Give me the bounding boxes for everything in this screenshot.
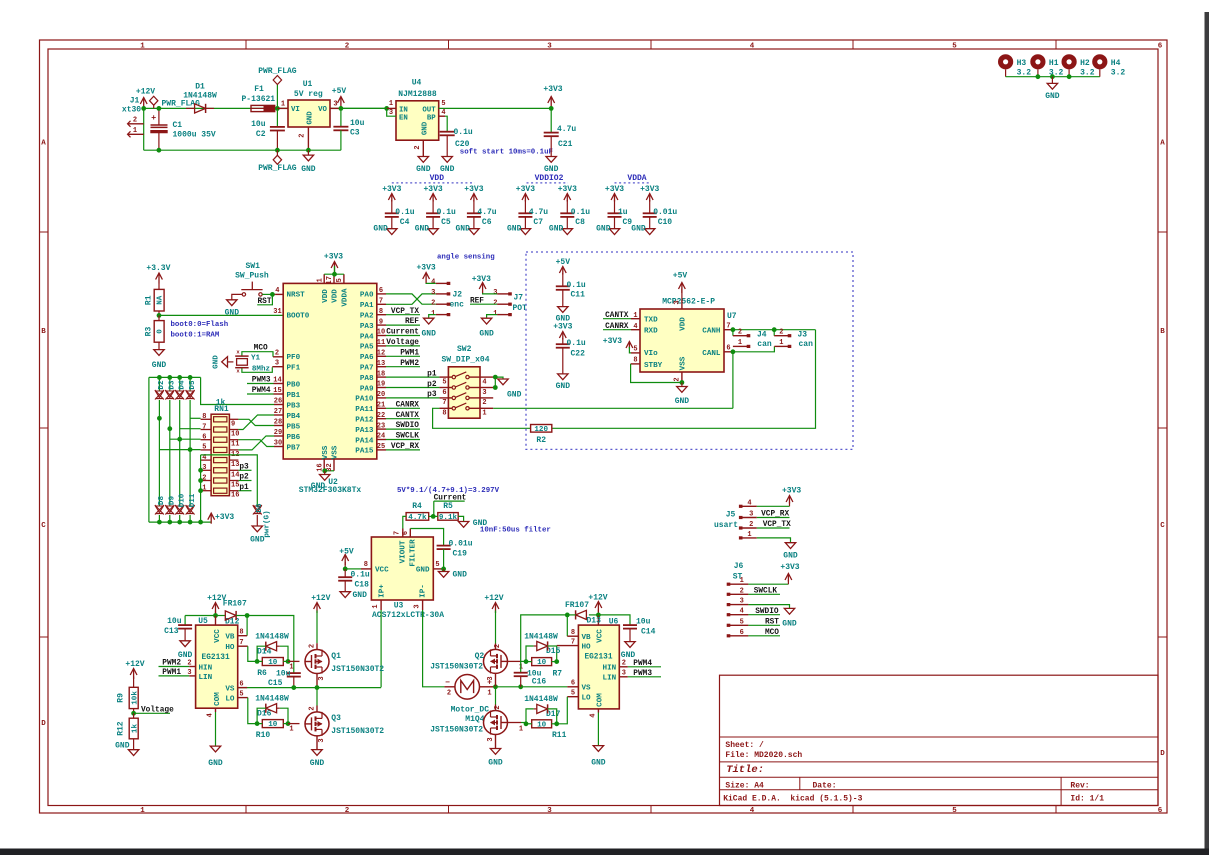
- svg-text:VCC: VCC: [597, 629, 605, 643]
- svg-text:1u: 1u: [618, 208, 628, 217]
- label p2 stub RN1 pin15: [238, 480, 251, 482]
- ground below U1: [307, 150, 309, 155]
- svg-text:1N4148W: 1N4148W: [524, 695, 558, 704]
- svg-text:GND: GND: [455, 224, 470, 233]
- PB5 pin: [274, 425, 283, 427]
- svg-text:VIOUT: VIOUT: [399, 540, 407, 563]
- svg-text:6: 6: [442, 389, 446, 397]
- svg-text:2: 2: [187, 660, 191, 668]
- svg-text:3: 3: [333, 100, 337, 108]
- svg-text:enc: enc: [450, 301, 465, 310]
- svg-text:17: 17: [326, 276, 334, 284]
- MCU pin 18: [377, 376, 386, 378]
- ground at J5: [785, 543, 795, 549]
- svg-text:D: D: [41, 720, 46, 728]
- svg-text:U4: U4: [412, 79, 422, 88]
- wire J6 pin3 to gnd: [748, 605, 789, 609]
- svg-text:1: 1: [493, 310, 497, 318]
- svg-text:PA14: PA14: [355, 437, 374, 445]
- svg-text:2: 2: [494, 644, 502, 648]
- svg-text:2: 2: [309, 644, 317, 648]
- svg-text:PB6: PB6: [287, 434, 301, 442]
- label VCP_TX on PA2: [386, 314, 420, 316]
- label SWCLK on PA14: [386, 439, 420, 441]
- svg-text:xt30: xt30: [122, 106, 141, 115]
- svg-text:PWM4: PWM4: [633, 660, 652, 668]
- wire SW1 left to gnd: [232, 294, 242, 299]
- svg-text:32: 32: [326, 463, 334, 471]
- RN1 resistor 7: [214, 478, 227, 483]
- svg-text:usart: usart: [714, 521, 738, 530]
- MCU pin 23: [377, 428, 386, 430]
- svg-text:VDD: VDD: [430, 174, 445, 183]
- svg-text:4.7k: 4.7k: [408, 514, 427, 522]
- SW2 switch 2: [439, 387, 452, 389]
- wire R10 to Q3 gate: [257, 723, 262, 725]
- svg-text:LIN: LIN: [603, 675, 617, 683]
- junction R1/R3: [157, 313, 162, 318]
- svg-text:1N4148W: 1N4148W: [255, 694, 289, 703]
- svg-text:B: B: [41, 328, 46, 336]
- capacitor C15 10u: [287, 672, 301, 674]
- svg-text:VCC: VCC: [214, 629, 222, 643]
- svg-text:GND: GND: [782, 620, 797, 629]
- svg-text:0.01u: 0.01u: [449, 539, 473, 548]
- svg-text:GND: GND: [479, 329, 494, 338]
- mounting hole H1: [1030, 54, 1045, 69]
- svg-text:PWM3: PWM3: [252, 377, 271, 385]
- svg-text:PB0: PB0: [287, 381, 301, 389]
- svg-text:10k: 10k: [131, 691, 139, 705]
- svg-text:PB1: PB1: [287, 392, 301, 400]
- svg-text:8: 8: [442, 410, 446, 418]
- svg-text:VDD: VDD: [322, 289, 330, 303]
- svg-text:2: 2: [202, 474, 206, 482]
- svg-text:PWM2: PWM2: [400, 360, 419, 368]
- sensor U3 ACS712xLCTR-30A: [371, 537, 433, 600]
- svg-text:6: 6: [202, 434, 206, 442]
- power +3V3 at RN1 bottom: [208, 513, 215, 520]
- wire PA8 to SW2 p1: [386, 376, 439, 378]
- SW2 switch 1: [439, 376, 452, 378]
- label CANRX on PA11: [386, 407, 420, 409]
- svg-text:HIN: HIN: [199, 664, 213, 672]
- resistor R10 10: [262, 720, 283, 728]
- svg-text:13: 13: [231, 461, 239, 469]
- ground below U6 COM: [593, 746, 603, 752]
- frame column ticks bottom: [245, 806, 247, 814]
- junction VCC: [343, 567, 348, 572]
- svg-text:PA6: PA6: [360, 354, 374, 362]
- svg-text:1: 1: [747, 531, 751, 539]
- svg-text:4: 4: [207, 713, 215, 717]
- svg-text:LO: LO: [225, 696, 235, 704]
- title block dividers: [720, 736, 1159, 738]
- U4 pin1 IN: [387, 107, 396, 109]
- svg-text:COM: COM: [597, 693, 605, 707]
- svg-text:3: 3: [431, 289, 435, 297]
- wire VB drop U6: [566, 615, 568, 636]
- label p3 stub RN1 pin14: [238, 469, 251, 471]
- U6 VS pin 6: [567, 686, 578, 688]
- svg-text:14: 14: [273, 377, 281, 385]
- wire bootstrap rail to C15: [247, 616, 294, 674]
- svg-text:PA10: PA10: [355, 396, 374, 404]
- ground below U4: [418, 157, 428, 163]
- wire diode bottom rail: [149, 521, 211, 523]
- ground below C14: [625, 642, 635, 648]
- svg-text:3: 3: [202, 464, 206, 472]
- RN1 resistor 4: [214, 447, 227, 452]
- power +12V at U6: [595, 602, 602, 609]
- wire taps to RN1: [190, 417, 201, 419]
- svg-text:GND: GND: [310, 759, 325, 768]
- wire SW2 pin8 to R2: [433, 408, 531, 428]
- svg-text:LIN: LIN: [199, 674, 213, 682]
- svg-text:R4: R4: [412, 502, 422, 511]
- svg-text:R9: R9: [117, 693, 126, 703]
- svg-text:EN: EN: [399, 114, 408, 122]
- wire to D6: [201, 455, 258, 506]
- power +5V at U3: [342, 555, 349, 562]
- svg-text:R1: R1: [145, 295, 154, 305]
- MCU pin 12: [377, 355, 386, 357]
- svg-text:C16: C16: [532, 678, 547, 687]
- frame row ticks left: [40, 231, 49, 233]
- label CANTX to U7: [603, 318, 631, 320]
- wire J6 pin1 to +3V3: [748, 583, 788, 585]
- svg-text:3: 3: [413, 604, 421, 608]
- svg-text:VS: VS: [225, 686, 235, 694]
- svg-text:2: 2: [299, 134, 307, 138]
- svg-text:1: 1: [519, 726, 523, 734]
- junction U4 input: [384, 106, 389, 111]
- power +3V3 at J2: [423, 273, 430, 280]
- svg-text:RN1: RN1: [214, 405, 229, 414]
- svg-text:J2: J2: [453, 291, 463, 300]
- svg-text:5: 5: [740, 618, 744, 626]
- wire R4 to VIOUT: [403, 516, 406, 528]
- svg-text:D9: D9: [169, 496, 177, 506]
- svg-text:+3.3V: +3.3V: [146, 264, 170, 273]
- MCU pin 25: [377, 449, 386, 451]
- label RST stub: [257, 294, 272, 304]
- U7 CANL pin6: [724, 351, 733, 353]
- svg-text:C19: C19: [453, 550, 468, 559]
- svg-text:10: 10: [537, 721, 547, 729]
- svg-text:J1: J1: [130, 97, 140, 106]
- svg-text:can: can: [757, 340, 772, 349]
- svg-text:3: 3: [187, 669, 191, 677]
- svg-text:PA13: PA13: [355, 427, 374, 435]
- U5 VS pin 6: [238, 687, 247, 689]
- power +5V at U7 VDD: [681, 300, 683, 309]
- svg-text:D3: D3: [169, 380, 177, 390]
- svg-text:x: x: [236, 368, 240, 375]
- svg-text:p1: p1: [427, 370, 437, 378]
- wire SW1 to NRST: [262, 293, 272, 295]
- svg-text:JST150N30T2: JST150N30T2: [331, 727, 384, 736]
- label PWM1 to U5 LIN: [159, 675, 190, 677]
- svg-text:CANRX: CANRX: [396, 401, 420, 409]
- U1 pin 3: [330, 107, 341, 109]
- svg-text:C14: C14: [641, 627, 656, 636]
- junction RN1 tap D3: [167, 426, 172, 431]
- svg-text:PA3: PA3: [360, 323, 374, 331]
- svg-text:1N4148W: 1N4148W: [255, 632, 289, 641]
- label REF at J7: [470, 303, 497, 305]
- PB7 pin: [274, 446, 283, 448]
- wire RN1 pin12 cross to PB6: [238, 436, 274, 450]
- svg-text:CANTX: CANTX: [605, 312, 629, 320]
- svg-text:9: 9: [231, 420, 235, 428]
- svg-text:28: 28: [274, 418, 282, 426]
- resistor R12 1k: [133, 713, 135, 718]
- svg-text:U7: U7: [727, 312, 737, 321]
- junction RN1 tap D4: [177, 437, 182, 442]
- svg-text:4.7u: 4.7u: [529, 208, 548, 217]
- svg-text:1: 1: [389, 100, 393, 108]
- capacitor C1: [158, 108, 160, 125]
- svg-text:+3V3: +3V3: [553, 322, 572, 331]
- svg-text:C6: C6: [482, 218, 492, 227]
- svg-text:7: 7: [726, 323, 730, 331]
- svg-text:PA2: PA2: [360, 313, 374, 321]
- wire mounting holes gnd bus: [1006, 76, 1100, 78]
- svg-text:REF: REF: [405, 318, 419, 326]
- wire CANL to J3: [733, 346, 775, 351]
- svg-text:JST150N30T2: JST150N30T2: [331, 665, 384, 674]
- diode D4: [179, 377, 181, 390]
- Q3 drain from VS: [316, 688, 318, 706]
- svg-text:C5: C5: [441, 218, 451, 227]
- MCU pin 6: [377, 293, 386, 295]
- ground below D6: [252, 526, 262, 532]
- label Current on PA4: [386, 335, 420, 337]
- label PWM4: [628, 666, 661, 668]
- svg-text:+: +: [151, 113, 156, 123]
- svg-text:RXD: RXD: [644, 328, 658, 336]
- U1 pin 2 GND: [307, 127, 309, 150]
- window right edge strip: [1205, 12, 1209, 855]
- junction D12 cathode: [245, 613, 250, 618]
- resistor R3 0: [158, 315, 160, 320]
- svg-text:PA12: PA12: [355, 417, 374, 425]
- MCU pin 22: [377, 418, 386, 420]
- junction top rail D3: [167, 375, 172, 380]
- power +12V at J1: [140, 98, 147, 105]
- svg-text:8: 8: [379, 308, 383, 316]
- svg-text:Id: 1/1: Id: 1/1: [1070, 794, 1104, 803]
- svg-text:8: 8: [364, 561, 368, 569]
- ground at C19: [443, 569, 445, 572]
- svg-text:C13: C13: [164, 627, 179, 636]
- svg-text:CANL: CANL: [702, 350, 721, 358]
- mounting hole H4: [1092, 54, 1107, 69]
- svg-text:3: 3: [547, 43, 552, 51]
- U6 VB pin 8: [567, 635, 578, 637]
- MCU pin 10: [377, 335, 386, 337]
- MCU U2 STM32F303K8Tx body: [283, 283, 377, 459]
- junction +5V: [339, 106, 344, 111]
- svg-text:C4: C4: [400, 218, 410, 227]
- svg-text:0.1u: 0.1u: [567, 339, 586, 348]
- ground at J7: [487, 315, 498, 319]
- wire PA9 to SW2 p2: [386, 387, 439, 389]
- svg-text:VSS: VSS: [679, 356, 687, 370]
- RN1 resistor 2: [214, 427, 227, 432]
- wire D2 column: [158, 400, 160, 506]
- svg-text:10: 10: [377, 329, 385, 337]
- svg-text:HIN: HIN: [603, 665, 617, 673]
- ground below Q3: [312, 750, 322, 756]
- MCU pin 11: [377, 345, 386, 347]
- diode D9: [166, 506, 174, 513]
- svg-text:7: 7: [202, 423, 206, 431]
- power +3V3 at U4 output: [548, 97, 555, 104]
- svg-text:J5: J5: [726, 510, 736, 519]
- svg-text:7: 7: [442, 399, 446, 407]
- U6 HIN pin 2: [619, 666, 628, 668]
- PB6 pin: [274, 435, 283, 437]
- svg-text:6: 6: [726, 345, 730, 353]
- SW2 switch 4: [439, 407, 452, 409]
- junction after fuse: [275, 106, 280, 111]
- svg-text:NRST: NRST: [287, 292, 306, 300]
- svg-text:1k: 1k: [131, 724, 139, 734]
- svg-text:C18: C18: [355, 580, 370, 589]
- U6 COM pin 4: [597, 709, 599, 713]
- U3 GND pin 5: [433, 568, 443, 570]
- junction C2 bottom: [275, 148, 280, 153]
- svg-text:D14: D14: [257, 647, 272, 656]
- ground at mounting holes: [1051, 77, 1053, 84]
- label PWM1 on PA6: [386, 355, 420, 357]
- svg-text:6: 6: [402, 531, 410, 535]
- svg-text:GND: GND: [440, 165, 455, 174]
- resistor R6 10: [262, 658, 283, 666]
- label SWCLK at J6: [748, 593, 780, 595]
- ground below U5 COM: [210, 746, 220, 752]
- wire IP+ down to VS rail: [380, 610, 382, 687]
- title block border: [720, 675, 1159, 805]
- label SWDIO on PA13: [386, 428, 420, 430]
- U5 VCC pin: [215, 616, 217, 626]
- diode D8: [155, 506, 163, 513]
- label PWM2 to U5 HIN: [159, 666, 190, 668]
- U5 VB pin 8: [238, 635, 247, 637]
- svg-text:8: 8: [633, 357, 637, 365]
- svg-text:LO: LO: [582, 695, 592, 703]
- svg-text:PB7: PB7: [287, 444, 301, 452]
- junction VDD bar: [332, 272, 337, 277]
- svg-text:+12V: +12V: [136, 88, 155, 97]
- svg-text:GND: GND: [250, 536, 265, 545]
- crystal Y1 8Mhz: [242, 352, 273, 357]
- svg-text:TXD: TXD: [644, 317, 658, 325]
- svg-text:1N4148W: 1N4148W: [183, 91, 217, 100]
- svg-text:10u: 10u: [251, 120, 266, 129]
- svg-text:4: 4: [275, 287, 279, 295]
- svg-text:2: 2: [133, 116, 137, 124]
- wire RN1 pin9 cross to PB5: [238, 419, 274, 425]
- dashed box CAN section: [526, 252, 853, 449]
- svg-text:3: 3: [318, 676, 326, 680]
- svg-text:+3V3: +3V3: [324, 253, 343, 262]
- junction C1 top: [157, 106, 162, 111]
- wire J5 pin1 to gnd: [757, 538, 791, 543]
- junction +3V3 output: [549, 106, 554, 111]
- svg-text:25: 25: [377, 443, 385, 451]
- svg-text:C2: C2: [256, 130, 266, 139]
- RN1 resistor 5: [214, 458, 227, 463]
- svg-text:SWCLK: SWCLK: [754, 587, 778, 595]
- svg-text:MCO: MCO: [765, 629, 779, 637]
- svg-text:p3: p3: [239, 463, 249, 471]
- svg-text:GND: GND: [415, 224, 430, 233]
- svg-text:C: C: [41, 522, 46, 530]
- svg-text:PWM2: PWM2: [162, 660, 181, 668]
- svg-text:PWR_FLAG: PWR_FLAG: [258, 164, 297, 173]
- svg-text:3: 3: [547, 807, 552, 815]
- svg-text:VCP_RX: VCP_RX: [391, 443, 419, 451]
- Q4 source to gnd: [495, 735, 497, 749]
- Q3 source to gnd: [316, 736, 318, 749]
- svg-text:PF0: PF0: [287, 354, 301, 362]
- wire RN1 pin10 cross to PB4: [238, 415, 274, 430]
- power flag PWR_FLAG at input: [150, 96, 158, 105]
- MCU pin 9: [377, 324, 386, 326]
- wire U1 to U4: [341, 107, 387, 109]
- svg-text:VO: VO: [318, 106, 327, 114]
- svg-text:SW2: SW2: [457, 345, 472, 354]
- svg-text:boot0:1=RAM: boot0:1=RAM: [171, 332, 220, 340]
- RN1 resistor 6: [214, 468, 227, 473]
- svg-text:5: 5: [239, 690, 243, 698]
- wire R6 to Q1 gate: [257, 660, 262, 662]
- svg-text:GND: GND: [213, 355, 221, 369]
- svg-text:GND: GND: [453, 571, 468, 580]
- diode D11: [186, 506, 194, 513]
- junction top rail D4: [177, 375, 182, 380]
- svg-text:D16: D16: [257, 709, 272, 718]
- capacitor C21: [550, 108, 552, 132]
- wire STBY to gnd net: [631, 364, 682, 383]
- svg-text:MCP2562-E-P: MCP2562-E-P: [662, 298, 715, 307]
- svg-text:4.7u: 4.7u: [477, 208, 496, 217]
- junction RST: [270, 292, 275, 297]
- svg-text:IP+: IP+: [378, 584, 386, 598]
- svg-text:3: 3: [487, 676, 495, 680]
- svg-text:0.1u: 0.1u: [571, 208, 590, 217]
- svg-text:+3V3: +3V3: [543, 85, 562, 94]
- label VCP_RX on PA15: [386, 449, 420, 451]
- svg-text:3: 3: [389, 109, 393, 117]
- svg-text:120: 120: [534, 426, 548, 434]
- svg-text:4: 4: [633, 323, 637, 331]
- diode D2: [158, 377, 160, 390]
- U5 LO pin 5: [238, 697, 248, 699]
- VS rail: [238, 687, 381, 689]
- ground below MCU: [324, 471, 326, 475]
- RN1 resistor 8: [214, 488, 227, 493]
- svg-text:0.1u: 0.1u: [351, 570, 370, 579]
- svg-text:Motor_DC: Motor_DC: [451, 705, 490, 714]
- svg-text:PWM4: PWM4: [252, 387, 271, 395]
- svg-text:GND: GND: [549, 224, 564, 233]
- svg-text:GND: GND: [307, 111, 315, 125]
- svg-text:10u: 10u: [276, 669, 291, 678]
